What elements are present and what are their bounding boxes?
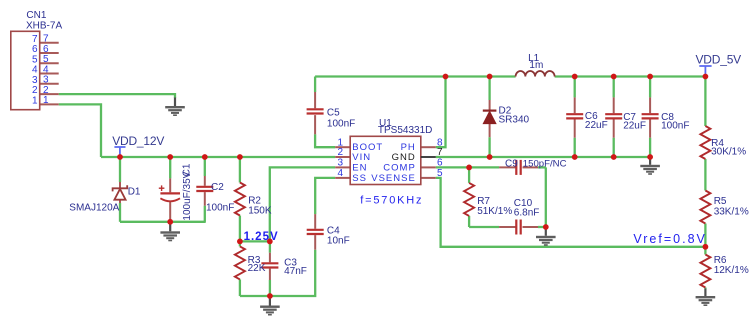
svg-text:SS: SS (352, 173, 367, 184)
svg-text:150K: 150K (248, 206, 272, 217)
svg-text:Vref=0.8V: Vref=0.8V (633, 232, 706, 246)
svg-text:SR340: SR340 (499, 114, 530, 125)
svg-text:1: 1 (32, 95, 38, 106)
svg-text:GND: GND (392, 152, 416, 163)
svg-text:C2: C2 (211, 182, 224, 193)
svg-text:100uF/35V: 100uF/35V (182, 171, 193, 220)
svg-text:SMAJ120A: SMAJ120A (69, 202, 119, 213)
svg-text:3: 3 (337, 158, 343, 169)
svg-text:C5: C5 (327, 108, 340, 119)
svg-text:10nF: 10nF (327, 235, 350, 246)
svg-text:100nF: 100nF (661, 121, 689, 132)
svg-text:150pF/NC: 150pF/NC (523, 158, 567, 169)
svg-text:12K/1%: 12K/1% (714, 265, 749, 276)
svg-text:COMP: COMP (383, 163, 416, 174)
svg-text:30K/1%: 30K/1% (711, 147, 746, 158)
svg-text:22uF: 22uF (623, 121, 646, 132)
svg-text:1.25V: 1.25V (244, 231, 279, 243)
svg-text:EN: EN (352, 163, 367, 174)
svg-text:22K: 22K (248, 263, 266, 274)
svg-text:22uF: 22uF (585, 120, 608, 131)
svg-text:6: 6 (437, 158, 443, 169)
svg-text:C9: C9 (505, 158, 518, 169)
svg-text:33K/1%: 33K/1% (714, 207, 749, 218)
svg-text:1m: 1m (529, 60, 543, 71)
svg-text:XHB-7A: XHB-7A (26, 21, 62, 32)
svg-text:100nF: 100nF (206, 203, 234, 214)
svg-text:VSENSE: VSENSE (371, 173, 416, 184)
svg-text:7: 7 (437, 147, 443, 158)
svg-text:R5: R5 (714, 196, 727, 207)
svg-text:f=570KHz: f=570KHz (360, 195, 423, 207)
svg-text:51K/1%: 51K/1% (477, 206, 512, 217)
svg-text:VDD_5V: VDD_5V (696, 53, 742, 67)
svg-text:4: 4 (337, 168, 343, 179)
svg-text:VDD_12V: VDD_12V (112, 134, 164, 148)
svg-text:D1: D1 (128, 186, 141, 197)
svg-text:TPS54331D: TPS54331D (378, 125, 432, 136)
svg-text:47nF: 47nF (284, 266, 307, 277)
svg-text:2: 2 (337, 147, 343, 158)
svg-text:CN1: CN1 (26, 10, 46, 21)
svg-text:100nF: 100nF (327, 119, 355, 130)
svg-text:6.8nF: 6.8nF (514, 207, 540, 218)
svg-text:1: 1 (43, 95, 49, 106)
svg-text:5: 5 (437, 168, 443, 179)
